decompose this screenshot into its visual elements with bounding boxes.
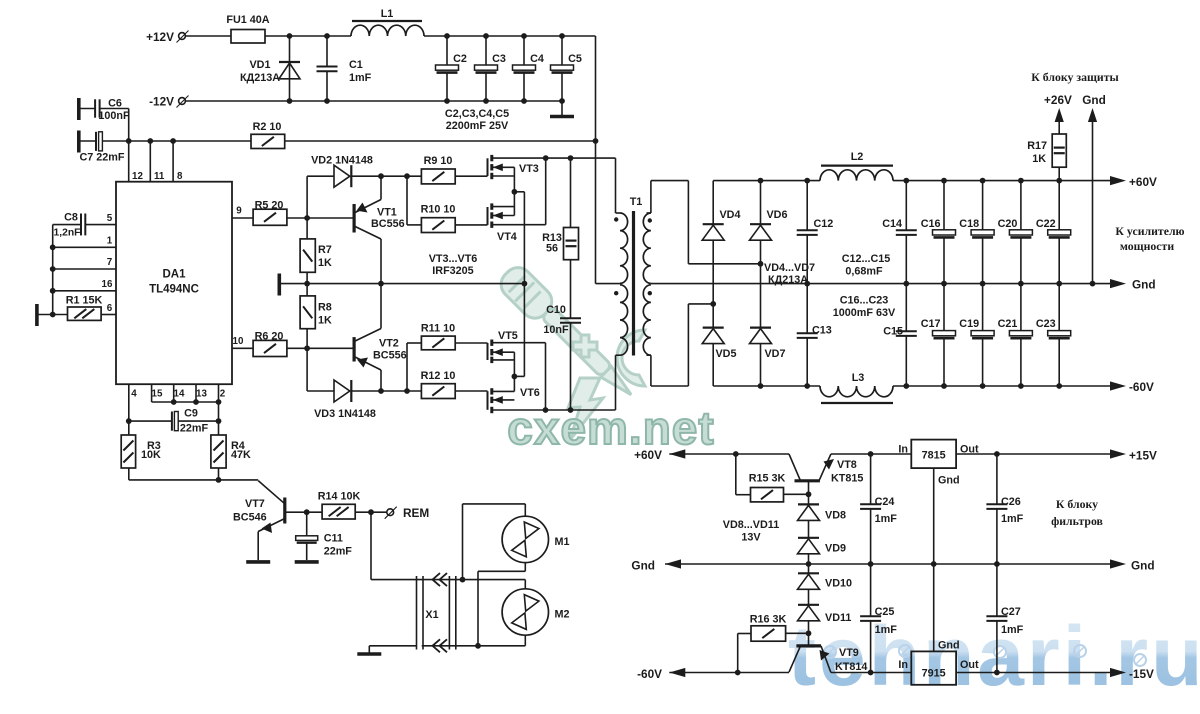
svg-text:C5: C5: [568, 53, 582, 65]
svg-text:VD6: VD6: [766, 209, 787, 221]
svg-text:C13: C13: [812, 325, 832, 337]
wire R12 to VT6 gate: [455, 390, 487, 392]
watermark tehnari.ru: [788, 609, 1200, 703]
arrow +26V: [1058, 120, 1060, 134]
svg-text:C7 22mF: C7 22mF: [79, 152, 124, 164]
svg-text:C10: C10: [546, 304, 566, 316]
wire -60V rail: [893, 385, 1110, 387]
svg-text:VD10: VD10: [825, 578, 852, 590]
ground C7: [77, 131, 81, 153]
svg-text:1000mF 63V: 1000mF 63V: [833, 307, 896, 319]
svg-text:In: In: [898, 659, 908, 671]
svg-text:R7: R7: [318, 244, 332, 256]
svg-text:VD2 1N4148: VD2 1N4148: [311, 155, 373, 167]
svg-text:FU1 40A: FU1 40A: [226, 14, 269, 26]
svg-text:VD3 1N4148: VD3 1N4148: [314, 408, 376, 420]
svg-text:C19: C19: [959, 318, 979, 330]
T1 primary winding upper: [615, 158, 617, 213]
svg-text:M2: M2: [555, 609, 570, 621]
wire R2 to +12V drop: [285, 140, 596, 142]
wire VD3 node to R12: [381, 390, 421, 392]
regulator 7815: [831, 453, 911, 455]
wire VD2 node to R9: [381, 175, 421, 177]
svg-text:VT7: VT7: [245, 498, 265, 510]
T1 core: [632, 211, 635, 356]
svg-text:22mF: 22mF: [180, 423, 209, 435]
svg-text:C11: C11: [324, 533, 343, 545]
arrow Gnd protection: [1092, 120, 1094, 284]
svg-text:10nF: 10nF: [543, 324, 569, 336]
wire GND rail from secondary center: [651, 283, 1110, 285]
svg-text:Gnd: Gnd: [938, 640, 960, 652]
wire VT7 base: [285, 511, 322, 513]
wire R3 R4 bottom rail: [128, 468, 130, 480]
svg-text:C16...C23: C16...C23: [840, 295, 889, 307]
svg-text:C16: C16: [921, 218, 941, 230]
svg-text:BC556: BC556: [371, 218, 405, 230]
svg-text:-15V: -15V: [1129, 667, 1154, 681]
svg-text:C12: C12: [814, 218, 834, 230]
svg-text:4: 4: [131, 389, 137, 400]
svg-text:10: 10: [233, 336, 244, 347]
wire +60V to VT8: [669, 453, 789, 455]
T1 primary phase dots: [614, 217, 618, 221]
svg-text:R15 3K: R15 3K: [749, 473, 786, 485]
svg-text:C22: C22: [1036, 218, 1056, 230]
svg-text:-60V: -60V: [637, 667, 662, 681]
wire plus rail to L2: [713, 180, 820, 182]
svg-text:К блоку защиты: К блоку защиты: [1031, 70, 1119, 84]
arrow -15V: [1110, 668, 1126, 677]
svg-text:12: 12: [132, 171, 143, 182]
svg-text:VT9: VT9: [839, 647, 859, 659]
pin 11: [149, 141, 151, 182]
svg-text:Gnd: Gnd: [1082, 93, 1106, 107]
svg-text:2: 2: [220, 389, 226, 400]
wire L1 to corner: [424, 35, 596, 37]
arrow -60V: [1110, 381, 1126, 390]
svg-text:C1: C1: [349, 59, 363, 71]
svg-text:C21: C21: [998, 318, 1018, 330]
ground VT7: [246, 560, 270, 564]
svg-text:6: 6: [107, 303, 113, 314]
T1 secondary winding lower: [643, 285, 651, 355]
T1 primary winding lower: [596, 283, 621, 285]
pin 12: [128, 141, 130, 182]
ground X1: [369, 645, 416, 647]
wire 7915 out: [956, 672, 1110, 674]
svg-text:R11 10: R11 10: [421, 323, 455, 335]
watermark cxem.net logo: [495, 262, 645, 440]
svg-text:мощности: мощности: [1120, 239, 1174, 253]
svg-text:L1: L1: [381, 8, 394, 20]
svg-text:1mF: 1mF: [1001, 513, 1024, 525]
svg-text:1mF: 1mF: [349, 72, 372, 84]
op-amp DA1 TL494NC: [116, 182, 232, 385]
svg-text:C14: C14: [882, 218, 902, 230]
svg-text:VD8...VD11: VD8...VD11: [723, 519, 779, 531]
svg-text:1K: 1K: [318, 315, 332, 327]
svg-text:1K: 1K: [318, 257, 332, 269]
svg-text:R2 10: R2 10: [253, 121, 282, 133]
arrow +60V: [1110, 176, 1126, 185]
arrow -60V input: [669, 668, 685, 677]
svg-text:11: 11: [154, 171, 165, 182]
wire -12V rail: [185, 100, 562, 102]
svg-text:C17: C17: [921, 318, 941, 330]
svg-text:7815: 7815: [922, 450, 946, 462]
svg-text:VD9: VD9: [825, 543, 846, 555]
svg-text:+60V: +60V: [1129, 175, 1157, 189]
pin 8: [172, 141, 174, 182]
svg-text:+60V: +60V: [634, 448, 662, 462]
svg-text:VT4: VT4: [497, 231, 517, 243]
svg-text:56: 56: [546, 243, 558, 255]
svg-text:C9: C9: [184, 408, 198, 420]
wire REM to X1: [370, 512, 372, 579]
svg-text:KT814: KT814: [835, 661, 867, 673]
svg-text:Gnd: Gnd: [1131, 559, 1155, 573]
wire secondary bottom path: [651, 385, 689, 387]
svg-text:1: 1: [107, 236, 113, 247]
svg-text:R16 3K: R16 3K: [750, 614, 787, 626]
svg-text:К блоку: К блоку: [1056, 497, 1098, 511]
svg-text:-60V: -60V: [1129, 380, 1154, 394]
ground mid rail: [277, 274, 281, 296]
svg-text:1K: 1K: [1032, 153, 1046, 165]
wire VT4 drain riser: [545, 158, 547, 225]
node VT5/VT6 sources: [512, 374, 518, 380]
svg-text:10K: 10K: [141, 449, 161, 461]
svg-text:К усилителю: К усилителю: [1115, 224, 1184, 238]
svg-text:0,68mF: 0,68mF: [845, 266, 883, 278]
riser to R10: [406, 176, 408, 225]
svg-text:13V: 13V: [741, 532, 761, 544]
svg-text:C3: C3: [492, 53, 506, 65]
svg-text:R10 10: R10 10: [421, 204, 456, 216]
svg-text:VT3...VT6: VT3...VT6: [429, 253, 478, 265]
ground C6: [77, 98, 81, 120]
svg-text:X1: X1: [425, 609, 438, 621]
svg-text:C8: C8: [64, 212, 78, 224]
wire FU1 to L1: [265, 35, 351, 37]
wire Gnd rail regulators: [665, 559, 681, 568]
svg-text:C2: C2: [453, 53, 467, 65]
svg-text:VD11: VD11: [825, 612, 851, 624]
wire X1 bottom: [422, 645, 526, 647]
arrow +60V input: [669, 449, 685, 458]
svg-text:22mF: 22mF: [324, 546, 353, 558]
svg-text:Gnd: Gnd: [938, 475, 960, 487]
svg-text:L3: L3: [852, 372, 865, 384]
svg-text:VD5: VD5: [715, 348, 736, 360]
svg-text:C18: C18: [959, 218, 979, 230]
svg-text:KT815: KT815: [831, 473, 863, 485]
svg-text:8: 8: [177, 171, 183, 182]
svg-text:R14 10K: R14 10K: [318, 491, 361, 503]
svg-text:VT5: VT5: [498, 330, 518, 342]
T1 secondary winding upper: [650, 181, 652, 213]
svg-text:C12...C15: C12...C15: [842, 253, 891, 265]
arrow +15V: [1110, 449, 1126, 458]
svg-text:R17: R17: [1027, 140, 1047, 152]
wire +12V rail: [185, 35, 231, 37]
svg-text:15: 15: [152, 389, 163, 400]
arrow Gnd output: [1110, 279, 1126, 288]
svg-text:VD4: VD4: [719, 209, 740, 221]
svg-text:VT1: VT1: [377, 207, 397, 219]
wire R9 to VT3 gate: [455, 175, 487, 177]
svg-text:VD7: VD7: [764, 348, 785, 360]
svg-text:R12 10: R12 10: [421, 370, 456, 382]
svg-text:-12V: -12V: [149, 95, 174, 109]
arrow Gnd right: [1110, 559, 1126, 568]
wire R11 to VT5 gate: [455, 342, 487, 344]
svg-text:+26V: +26V: [1044, 93, 1072, 107]
svg-text:VD1: VD1: [249, 59, 270, 71]
svg-text:VD8: VD8: [825, 510, 846, 522]
ground R1: [35, 304, 39, 326]
svg-text:13: 13: [196, 389, 207, 400]
svg-text:C24: C24: [875, 496, 895, 508]
svg-text:Gnd: Gnd: [1132, 278, 1156, 292]
svg-text:1,2nF: 1,2nF: [54, 228, 81, 239]
svg-text:C2,C3,C4,C5: C2,C3,C4,C5: [445, 108, 509, 120]
svg-text:2200mF 25V: 2200mF 25V: [446, 120, 509, 132]
svg-text:R9 10: R9 10: [424, 155, 453, 167]
svg-text:C4: C4: [530, 53, 544, 65]
wire VT9 emitter to 7915: [831, 672, 911, 674]
svg-text:L2: L2: [851, 151, 864, 163]
svg-text:5: 5: [107, 213, 113, 224]
svg-text:R8: R8: [318, 302, 332, 314]
svg-text:VT6: VT6: [520, 387, 540, 399]
svg-text:C23: C23: [1036, 318, 1056, 330]
svg-text:T1: T1: [630, 196, 643, 208]
svg-text:7915: 7915: [922, 668, 946, 680]
svg-text:+12V: +12V: [146, 30, 174, 44]
svg-text:Out: Out: [960, 659, 979, 671]
bottom pin bus: [152, 401, 219, 403]
svg-text:7: 7: [107, 257, 113, 268]
svg-text:фильтров: фильтров: [1051, 514, 1103, 528]
ground under C5: [561, 101, 563, 115]
ground C11: [295, 560, 319, 564]
wire VT5 drain riser: [545, 343, 547, 410]
svg-text:КД213А: КД213А: [240, 72, 280, 84]
svg-text:VT8: VT8: [837, 459, 857, 471]
wire +60V rail: [893, 180, 1110, 182]
svg-text:BC546: BC546: [233, 512, 267, 524]
left bus: [52, 225, 54, 315]
svg-text:C26: C26: [1001, 496, 1021, 508]
wire +12V drop to center tap: [595, 36, 597, 284]
svg-text:M1: M1: [555, 536, 570, 548]
svg-text:1mF: 1mF: [875, 624, 898, 636]
wire secondary top path: [651, 180, 689, 182]
wire R10 to VT4 gate: [455, 224, 487, 226]
wire minus rail to L3: [713, 385, 820, 387]
svg-text:VT3: VT3: [519, 163, 539, 175]
riser to R11: [406, 343, 408, 391]
wire 7815 out: [956, 453, 1110, 455]
svg-text:47K: 47K: [231, 449, 251, 461]
svg-text:REM: REM: [403, 506, 429, 520]
svg-text:In: In: [898, 444, 908, 456]
svg-text:9: 9: [236, 206, 242, 217]
svg-text:BC556: BC556: [373, 350, 407, 362]
terminal REM: [387, 509, 394, 516]
svg-text:+15V: +15V: [1129, 449, 1157, 463]
svg-text:100nF: 100nF: [98, 110, 130, 122]
svg-text:DA1: DA1: [162, 269, 186, 281]
svg-text:IRF3205: IRF3205: [432, 265, 473, 277]
svg-text:16: 16: [102, 279, 113, 290]
svg-text:1mF: 1mF: [1001, 624, 1024, 636]
wire drain bus bottom: [546, 409, 616, 411]
svg-text:TL494NC: TL494NC: [149, 284, 199, 296]
svg-text:Gnd: Gnd: [631, 559, 655, 573]
svg-text:1mF: 1mF: [875, 513, 898, 525]
svg-text:R1 15K: R1 15K: [66, 295, 103, 307]
T1 secondary phase dots: [648, 218, 652, 222]
node VT3/VT4 sources: [512, 189, 518, 195]
svg-text:14: 14: [174, 389, 185, 400]
svg-text:VT2: VT2: [379, 338, 399, 350]
wire drain bus top: [546, 157, 616, 159]
svg-text:C20: C20: [998, 218, 1018, 230]
